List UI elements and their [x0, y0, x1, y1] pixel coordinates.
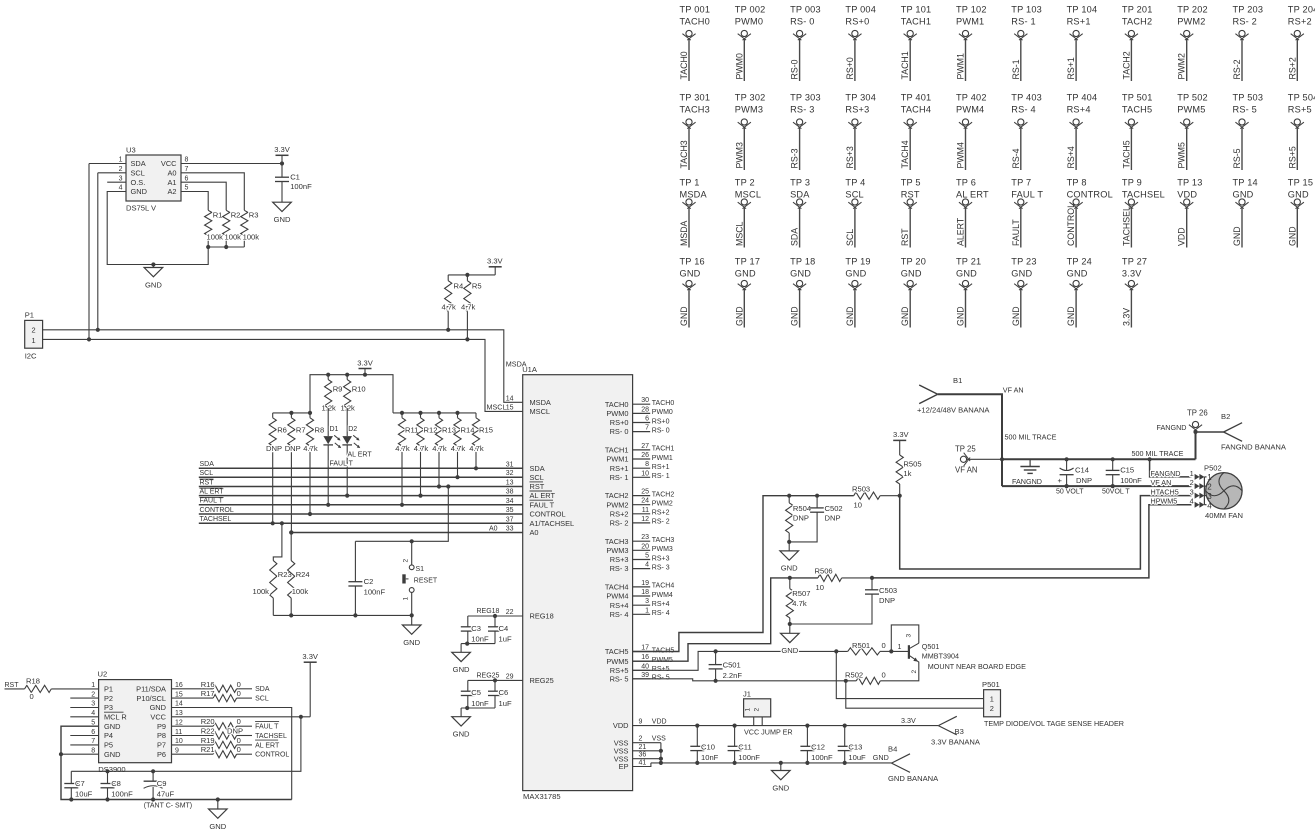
wire to P501 pin1: [836, 651, 983, 698]
test point TP 23 (GND): [1011, 257, 1037, 328]
junction R5 top: [465, 273, 469, 277]
svg-text:RS+0: RS+0: [610, 418, 629, 427]
svg-text:PWM2: PWM2: [1177, 17, 1205, 27]
wire U3 pin2 SCL to P1: [98, 173, 126, 330]
junction 3.3V stem: [363, 373, 367, 377]
svg-text:P9: P9: [157, 722, 166, 731]
svg-text:1: 1: [91, 682, 95, 689]
wire VSS rail: [651, 762, 892, 764]
svg-text:1k: 1k: [903, 469, 911, 478]
svg-text:TP 401: TP 401: [901, 93, 932, 103]
svg-text:RS+3: RS+3: [610, 555, 629, 564]
svg-text:50VOL T: 50VOL T: [1102, 489, 1130, 496]
svg-text:SCL: SCL: [131, 168, 145, 177]
power 3.3V U2: [302, 652, 319, 717]
resistor R507: [786, 578, 810, 624]
test point TP 13 (VDD): [1177, 178, 1203, 248]
svg-text:SCL: SCL: [530, 473, 544, 482]
svg-text:5: 5: [185, 185, 189, 192]
svg-text:EP: EP: [619, 762, 629, 771]
svg-text:GND: GND: [679, 306, 689, 326]
test point TP 204 (RS+2): [1287, 5, 1315, 81]
svg-text:TACH2: TACH2: [1121, 51, 1131, 79]
svg-text:PWM4: PWM4: [652, 592, 673, 599]
svg-text:100nF: 100nF: [364, 587, 386, 596]
svg-text:TP 13: TP 13: [1177, 178, 1202, 188]
svg-text:4: 4: [91, 710, 95, 717]
svg-text:C502: C502: [825, 504, 843, 513]
svg-text:C3: C3: [471, 624, 481, 633]
test point TP 15 (GND): [1287, 178, 1313, 248]
svg-text:HTACH5: HTACH5: [1151, 488, 1179, 497]
svg-text:P502: P502: [1204, 464, 1222, 473]
test point TP 16 (GND): [679, 257, 705, 328]
pin 5 RS+3 stub: [610, 553, 670, 565]
capacitor C5: [461, 680, 489, 708]
svg-text:TP 25: TP 25: [955, 445, 976, 454]
test point TP 302 (PWM3): [734, 93, 765, 170]
resistor R11: [395, 413, 418, 505]
junction C8 bottom: [105, 797, 109, 801]
wire C503 bottom rail: [790, 594, 872, 624]
jumper J1: [743, 689, 793, 736]
power 3.3V mid: [357, 358, 374, 374]
svg-text:C503: C503: [879, 586, 897, 595]
svg-text:1: 1: [1207, 473, 1212, 482]
ground R504: [780, 542, 799, 573]
svg-text:3.3V: 3.3V: [1122, 269, 1142, 279]
svg-text:GND: GND: [735, 269, 756, 279]
test point TP 304 (RS+3): [845, 93, 876, 170]
svg-text:CONTROL: CONTROL: [255, 752, 289, 759]
svg-text:PWM0: PWM0: [735, 17, 763, 27]
wire VFAN from B1 down: [938, 394, 1002, 486]
wire 3.3V rail to R4 R5: [448, 274, 495, 276]
test point TP 002 (PWM0): [734, 5, 765, 81]
svg-text:O.S.: O.S.: [131, 178, 146, 187]
svg-text:100nF: 100nF: [290, 182, 312, 191]
svg-text:AL ERT: AL ERT: [200, 488, 225, 495]
svg-text:GND: GND: [274, 215, 291, 224]
svg-text:0: 0: [30, 692, 34, 701]
svg-text:17: 17: [641, 645, 649, 652]
pin 20 PWM3 stub: [606, 543, 673, 555]
svg-text:41: 41: [639, 760, 647, 767]
wire U3 pin5 A2 to R1: [181, 192, 208, 211]
svg-text:RS- 4: RS- 4: [652, 610, 670, 617]
pin 40 RS+5 stub: [610, 663, 670, 675]
svg-text:GND: GND: [1232, 226, 1242, 246]
svg-text:TP 301: TP 301: [680, 93, 711, 103]
svg-text:RS+5: RS+5: [652, 666, 670, 673]
wire U2 left stub row 4: [70, 716, 98, 718]
junction resistor bottom (272.7,523.3): [271, 521, 275, 525]
capacitor C3: [461, 616, 489, 644]
resistor R1: [205, 210, 224, 247]
svg-text:2: 2: [32, 326, 36, 335]
wire U2 pin13 VCC: [172, 716, 311, 718]
svg-text:HPWM5: HPWM5: [1151, 497, 1178, 506]
svg-text:FAUL T: FAUL T: [1011, 190, 1043, 200]
svg-text:1: 1: [645, 607, 649, 614]
resistor R9: [322, 375, 343, 413]
svg-text:R1: R1: [213, 211, 223, 220]
junction S1 bottom: [410, 613, 414, 617]
test point TP 102 (PWM1): [956, 5, 987, 81]
svg-text:VDD: VDD: [1177, 227, 1187, 246]
svg-text:TACH5: TACH5: [1121, 140, 1131, 168]
wire bus RST: [199, 479, 523, 486]
svg-text:RS- 4: RS- 4: [1011, 105, 1036, 115]
test point TP26 + B2: [1157, 409, 1224, 460]
svg-text:PWM1: PWM1: [652, 455, 673, 462]
svg-text:4.7k: 4.7k: [451, 444, 466, 453]
resistor R17: [172, 689, 253, 702]
svg-text:SCL: SCL: [845, 229, 855, 246]
svg-text:TP 24: TP 24: [1067, 257, 1092, 267]
resistor R8: [303, 413, 324, 514]
svg-text:TP 7: TP 7: [1011, 178, 1031, 188]
svg-text:FANGND: FANGND: [1157, 423, 1187, 432]
svg-text:C6: C6: [499, 688, 509, 697]
svg-text:TP 104: TP 104: [1067, 5, 1098, 15]
ground U2rail: [209, 800, 228, 831]
svg-text:PWM2: PWM2: [652, 501, 673, 508]
resistor R18: [5, 677, 99, 702]
svg-text:RS- 1: RS- 1: [1011, 17, 1036, 27]
svg-text:R9: R9: [333, 385, 343, 394]
svg-text:S1: S1: [416, 566, 425, 573]
label 500 MIL TRACE horizontal run: [1132, 449, 1184, 458]
wire bus FAUL T: [199, 497, 523, 504]
IC U1A MAX31785: [522, 365, 632, 801]
resistor R16: [172, 680, 253, 693]
svg-text:MAX31785: MAX31785: [523, 792, 561, 801]
junction C501 top: [714, 649, 718, 653]
pin 25 TACH2 stub: [605, 489, 675, 501]
power 3.3V U3: [274, 145, 291, 163]
wire HPWM5 to fan: [872, 505, 1192, 578]
capacitor C7: [64, 771, 92, 799]
junction VCC drop: [299, 715, 303, 719]
test point TP 101 (TACH1): [900, 5, 931, 81]
svg-text:34: 34: [506, 498, 514, 505]
svg-text:23: 23: [641, 534, 649, 541]
svg-text:VDD: VDD: [652, 719, 667, 726]
svg-text:TP 23: TP 23: [1011, 257, 1036, 267]
svg-text:TACHSEL: TACHSEL: [1121, 206, 1131, 246]
svg-text:PWM3: PWM3: [606, 546, 628, 555]
svg-text:1: 1: [745, 708, 752, 712]
test point TP 001 (TACH0): [679, 5, 710, 81]
pin 1 RS- 4 stub: [610, 607, 670, 619]
svg-text:C15: C15: [1120, 466, 1134, 475]
capacitor C2: [348, 541, 385, 615]
svg-text:R15: R15: [479, 425, 493, 434]
junction VFAN/TP25: [1000, 457, 1004, 461]
svg-text:TACH0: TACH0: [605, 400, 629, 409]
svg-text:TACH1: TACH1: [900, 51, 910, 79]
svg-text:R6: R6: [277, 425, 287, 434]
svg-text:RS+0: RS+0: [845, 57, 855, 79]
svg-text:10nF: 10nF: [471, 699, 489, 708]
svg-text:13: 13: [175, 710, 183, 717]
svg-text:7: 7: [645, 425, 649, 432]
svg-text:RESET: RESET: [414, 577, 438, 584]
test point TP 504 (RS+5): [1287, 93, 1315, 170]
svg-text:10nF: 10nF: [471, 634, 489, 643]
svg-text:C4: C4: [499, 624, 509, 633]
resistor R7: [285, 413, 306, 533]
svg-text:TP 503: TP 503: [1233, 93, 1264, 103]
svg-text:R7: R7: [296, 425, 306, 434]
svg-text:R16: R16: [201, 680, 215, 689]
svg-text:R24: R24: [296, 570, 310, 579]
svg-text:PWM5: PWM5: [1177, 142, 1187, 168]
junction C5 bottom: [465, 706, 469, 710]
svg-text:RS- 5: RS- 5: [610, 674, 629, 683]
svg-text:100k: 100k: [292, 587, 309, 596]
resistor R23: [253, 561, 292, 616]
svg-text:28: 28: [641, 406, 649, 413]
junction resistor bottom (420.5,495.6): [418, 494, 422, 498]
svg-text:RS- 4: RS- 4: [610, 610, 629, 619]
svg-text:RS-0: RS-0: [790, 59, 800, 79]
transistor Q501 MMBT3904: [880, 625, 1026, 681]
capacitor C11: [728, 726, 761, 763]
svg-text:VDD: VDD: [613, 721, 629, 730]
svg-text:RS+1: RS+1: [1066, 57, 1076, 79]
svg-text:TP 15: TP 15: [1288, 178, 1313, 188]
wire VCC to cap rail: [71, 717, 301, 772]
svg-text:R22: R22: [201, 727, 215, 736]
svg-text:RS+4: RS+4: [652, 601, 670, 608]
pin 10 RS- 1 stub: [610, 470, 670, 482]
test point TP 2 (MSCL): [734, 178, 761, 248]
test point TP 27 (3.3V): [1121, 257, 1147, 328]
svg-text:TP 501: TP 501: [1122, 93, 1153, 103]
svg-text:TP 103: TP 103: [1011, 5, 1042, 15]
svg-text:RS- 5: RS- 5: [1233, 105, 1258, 115]
junction C502 tap: [815, 494, 819, 498]
svg-text:R507: R507: [792, 589, 810, 598]
svg-text:TP 3: TP 3: [790, 178, 810, 188]
svg-text:TACH3: TACH3: [679, 140, 689, 168]
junction resistor top x=402: [400, 411, 404, 415]
svg-text:GND: GND: [403, 638, 420, 647]
svg-text:40MM FAN: 40MM FAN: [1205, 511, 1243, 520]
svg-text:8: 8: [185, 157, 189, 164]
pin 27 TACH1 stub: [605, 443, 675, 455]
pin 4 RS- 3 stub: [610, 562, 670, 574]
svg-text:1: 1: [898, 644, 902, 651]
test point TP 404 (RS+4): [1066, 93, 1097, 170]
svg-text:VCC: VCC: [161, 159, 177, 168]
svg-text:13: 13: [506, 480, 514, 487]
svg-text:TP 304: TP 304: [845, 93, 876, 103]
svg-text:TACH4: TACH4: [901, 105, 931, 115]
svg-text:2: 2: [754, 708, 761, 712]
svg-text:100nF: 100nF: [811, 753, 833, 762]
svg-text:GND: GND: [781, 646, 798, 655]
svg-text:3: 3: [906, 634, 913, 638]
junction VSS x=697.3: [695, 761, 699, 765]
svg-text:CONTROL: CONTROL: [1066, 203, 1076, 246]
svg-text:TACH2: TACH2: [605, 491, 629, 500]
svg-text:RS-2: RS-2: [1232, 59, 1242, 79]
svg-text:4.7k: 4.7k: [442, 303, 457, 312]
svg-text:I2C: I2C: [25, 352, 37, 361]
svg-text:1: 1: [32, 336, 36, 345]
svg-text:PWM4: PWM4: [956, 105, 984, 115]
svg-text:1: 1: [1190, 469, 1194, 478]
svg-text:RS+2: RS+2: [652, 510, 670, 517]
junction R507 tap: [788, 576, 792, 580]
svg-text:SDA: SDA: [790, 228, 800, 246]
svg-text:RS+3: RS+3: [845, 105, 869, 115]
svg-text:2: 2: [911, 670, 918, 674]
svg-text:TP 9: TP 9: [1122, 178, 1142, 188]
svg-text:RS+2: RS+2: [1287, 57, 1297, 79]
resistor R13: [432, 413, 456, 487]
svg-text:GND: GND: [209, 822, 226, 831]
junction VSS x=780.8: [779, 761, 783, 765]
test point TP 14 (GND): [1232, 178, 1258, 248]
svg-text:AL ERT: AL ERT: [530, 491, 556, 500]
junction C8 top: [105, 769, 109, 773]
svg-text:GND: GND: [790, 306, 800, 326]
svg-text:36: 36: [639, 752, 647, 759]
power 3.3V R505: [893, 430, 910, 455]
wire U3 pin1 SDA to P1: [89, 164, 126, 340]
svg-text:B1: B1: [953, 376, 962, 385]
U1A left pin numbers: [506, 461, 514, 680]
pin 39 RS- 5 stub: [610, 672, 670, 684]
wire U2 left stub row 7: [70, 744, 98, 746]
svg-text:GND: GND: [104, 722, 120, 731]
svg-text:GND: GND: [873, 753, 889, 762]
svg-text:TP 203: TP 203: [1233, 5, 1264, 15]
svg-text:C5: C5: [471, 688, 481, 697]
svg-text:TP 402: TP 402: [956, 93, 987, 103]
svg-text:FAUL T: FAUL T: [200, 498, 224, 505]
svg-text:R11: R11: [405, 425, 418, 434]
svg-text:RS- 0: RS- 0: [652, 427, 670, 434]
svg-text:TP 21: TP 21: [956, 257, 981, 267]
svg-text:TP 6: TP 6: [956, 178, 976, 188]
label TANT C-SMT: [144, 803, 192, 810]
svg-text:U2: U2: [98, 670, 108, 679]
svg-text:GND BANANA: GND BANANA: [888, 774, 939, 783]
svg-text:GND: GND: [150, 703, 166, 712]
svg-text:2: 2: [639, 736, 643, 743]
junction VDD cap x=697.3: [695, 724, 699, 728]
svg-text:8: 8: [645, 461, 649, 468]
svg-text:TP 002: TP 002: [735, 5, 766, 15]
svg-text:TP 16: TP 16: [680, 257, 705, 267]
junction resistor top x=439: [437, 411, 441, 415]
U1A left pin name labels: [530, 398, 575, 685]
test point TP 17 (GND): [734, 257, 760, 328]
junction GND symbol bottom rail: [216, 797, 220, 801]
svg-text:VCC JUMP ER: VCC JUMP ER: [744, 728, 793, 737]
svg-text:A0: A0: [489, 526, 498, 533]
svg-text:C501: C501: [723, 661, 741, 670]
net label SDA at R16: [255, 686, 270, 693]
svg-text:PWM3: PWM3: [734, 142, 744, 168]
wire RS+5 net (pin40 to R501): [633, 651, 848, 670]
svg-text:4: 4: [645, 562, 649, 569]
test point TP 403 (RS- 4): [1011, 93, 1042, 170]
svg-text:10uF: 10uF: [75, 789, 93, 798]
svg-text:25: 25: [641, 489, 649, 496]
svg-text:(TANT C- SMT): (TANT C- SMT): [144, 803, 192, 810]
svg-text:TACH5: TACH5: [605, 647, 629, 656]
svg-text:AL ERT: AL ERT: [348, 451, 373, 458]
svg-text:5: 5: [645, 553, 649, 560]
svg-text:PWM5: PWM5: [606, 657, 628, 666]
test point TP 24 (GND): [1066, 257, 1092, 328]
svg-text:10: 10: [854, 501, 862, 510]
capacitor C9 (tantalum): [144, 771, 175, 799]
svg-text:11: 11: [642, 507, 649, 514]
resistor R14: [451, 413, 475, 477]
svg-text:3: 3: [1190, 488, 1194, 497]
wire bus SCL: [199, 470, 523, 477]
wire FANGND drop to P502 pin1: [1150, 459, 1192, 477]
svg-text:GND: GND: [1287, 226, 1297, 246]
banana label 3.3V for B3: [901, 716, 916, 725]
pin 3 RS+4 stub: [610, 598, 670, 610]
svg-text:24: 24: [641, 498, 649, 505]
wire U3 pin3 O.S. stub: [107, 181, 126, 183]
LED D2: [342, 408, 360, 496]
svg-text:RS+3: RS+3: [845, 146, 855, 168]
junction C9 top: [151, 769, 155, 773]
svg-text:0: 0: [237, 745, 241, 754]
svg-text:PWM1: PWM1: [956, 17, 984, 27]
pin 11 RS+2 stub: [610, 507, 670, 519]
svg-text:RS+4: RS+4: [610, 601, 629, 610]
svg-text:4.7k: 4.7k: [395, 444, 410, 453]
svg-text:TP 8: TP 8: [1067, 178, 1087, 188]
wire bus CONTROL: [199, 507, 523, 514]
junction resistor top x=457.5: [455, 411, 459, 415]
junction R7 top: [289, 411, 293, 415]
ground REG18: [452, 644, 471, 675]
svg-text:SDA: SDA: [790, 190, 810, 200]
svg-text:FANGND BANANA: FANGND BANANA: [1221, 443, 1287, 452]
svg-text:3: 3: [91, 701, 95, 708]
svg-text:RS- 1: RS- 1: [610, 473, 629, 482]
svg-text:P1: P1: [25, 311, 34, 320]
test point TP 501 (TACH5): [1121, 93, 1152, 170]
svg-text:R17: R17: [201, 689, 215, 698]
svg-text:RS+5: RS+5: [1288, 105, 1312, 115]
svg-text:RS+5: RS+5: [1287, 146, 1297, 168]
svg-text:R19: R19: [201, 736, 215, 745]
svg-text:1: 1: [402, 597, 409, 601]
junction C9 bottom: [151, 797, 155, 801]
svg-text:R12: R12: [424, 425, 438, 434]
svg-text:FAULT: FAULT: [1011, 219, 1021, 246]
test point TP 203 (RS- 2): [1232, 5, 1263, 81]
svg-text:R504: R504: [793, 504, 811, 513]
svg-text:RS- 2: RS- 2: [652, 519, 670, 526]
svg-text:+: +: [1058, 476, 1063, 485]
svg-text:TACH1: TACH1: [652, 446, 675, 453]
test point TP 502 (PWM5): [1177, 93, 1208, 170]
